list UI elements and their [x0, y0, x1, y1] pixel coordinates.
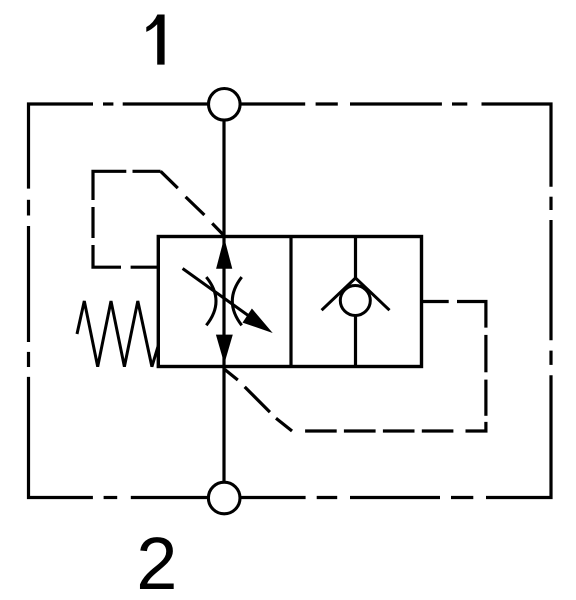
svg-text:2: 2 [136, 522, 177, 600]
